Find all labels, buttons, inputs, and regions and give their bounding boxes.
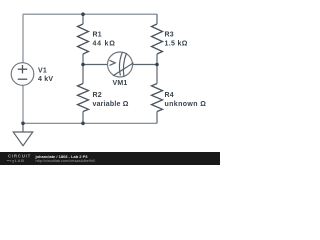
wire top rail — [23, 13, 157, 15]
node junction mid right — [155, 63, 159, 67]
wire R4 bottom stub — [156, 112, 158, 124]
footer bar — [0, 152, 220, 165]
wire left rail upper — [22, 14, 24, 63]
resistor R1 — [78, 24, 89, 54]
svg-text:johanclate / 1803 - Lab 2 P3: johanclate / 1803 - Lab 2 P3 — [35, 154, 89, 159]
wire R2 top stub — [82, 65, 84, 84]
svg-text:http://circuitlab.com/cmsaa4db: http://circuitlab.com/cmsaa4dbe9h0 — [36, 159, 96, 163]
svg-text:4 kV: 4 kV — [38, 76, 53, 83]
node junction top R1 — [81, 12, 85, 16]
wire R1 bottom stub — [82, 54, 84, 65]
wire R2 bottom stub — [82, 112, 84, 124]
svg-text:44 kΩ: 44 kΩ — [93, 41, 116, 48]
wire R3 bottom stub — [156, 54, 158, 65]
svg-text:R3: R3 — [165, 32, 174, 39]
svg-text:R2: R2 — [93, 92, 102, 99]
resistor R2 — [78, 84, 89, 112]
wire ground stem — [22, 123, 24, 132]
svg-text:variable Ω: variable Ω — [93, 101, 129, 108]
wire right rail upper (R3 stubs) — [156, 14, 158, 24]
svg-text:R4: R4 — [165, 92, 174, 99]
node junction ground — [21, 122, 25, 126]
voltmeter VM1 — [108, 52, 134, 77]
wire VM1 left — [83, 64, 108, 66]
svg-text:R1: R1 — [93, 32, 102, 39]
wire left rail lower — [22, 85, 24, 123]
wire bottom rail — [23, 122, 157, 124]
svg-text:VM1: VM1 — [113, 80, 128, 87]
ground — [13, 132, 33, 146]
wire R1 top stub — [82, 14, 84, 24]
wire VM1 right — [133, 64, 158, 66]
resistor R4 — [152, 84, 163, 112]
node junction mid left — [81, 63, 85, 67]
wire R4 top stub — [156, 65, 158, 84]
node junction bottom R2 — [81, 122, 85, 126]
voltage source V1 — [11, 63, 34, 86]
svg-text:V1: V1 — [38, 68, 47, 75]
svg-text:1.5 kΩ: 1.5 kΩ — [165, 41, 188, 48]
svg-text:unknown Ω: unknown Ω — [165, 101, 207, 108]
resistor R3 — [152, 24, 163, 54]
